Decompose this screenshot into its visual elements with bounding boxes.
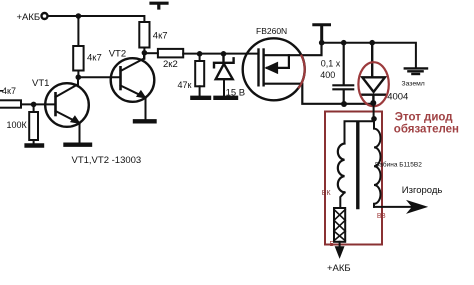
node base/100К junction	[31, 102, 37, 108]
svg-text:ВК: ВК	[322, 190, 332, 197]
resistor R6 47к	[195, 61, 204, 86]
svg-text:FB260N: FB260N	[256, 26, 287, 36]
svg-text:+АКБ: +АКБ	[327, 263, 351, 274]
svg-text:VT2: VT2	[109, 49, 126, 60]
wire 2к2 to gate	[183, 53, 257, 55]
resistor R4 100К	[29, 112, 38, 140]
terminal T top-left	[151, 3, 167, 8]
resistor R3 4к7 (left edge)	[0, 100, 21, 107]
wire 47к bottom lead	[199, 86, 201, 95]
arrow Изгородь	[408, 201, 427, 213]
svg-text:VT1: VT1	[32, 78, 49, 89]
wire primary bottom lead	[340, 192, 344, 208]
svg-text:обязателен: обязателен	[394, 124, 459, 136]
red box around coil	[325, 112, 382, 245]
svg-text:100К: 100К	[7, 120, 28, 130]
node coil top junction	[371, 116, 377, 122]
transistor VT2	[111, 52, 155, 118]
node VT1 collector junction	[76, 74, 82, 80]
wire R3 to VT1 base	[21, 103, 55, 105]
ground under zener	[216, 96, 237, 100]
svg-text:Заземл: Заземл	[402, 81, 425, 88]
svg-text:4к7: 4к7	[87, 53, 102, 64]
ground under 47к	[192, 96, 209, 100]
svg-text:400: 400	[320, 70, 335, 80]
transformer secondary coil	[374, 119, 381, 207]
node R2/VT2/2к2 junction	[142, 50, 148, 56]
wire diode node down to coil node	[373, 103, 375, 119]
wire node to 2к2	[144, 52, 158, 54]
transformer core	[356, 123, 359, 208]
wire R1 top lead	[77, 16, 79, 46]
svg-text:4004: 4004	[387, 91, 408, 102]
node cap bottom junction	[341, 101, 347, 107]
ground under 100К	[27, 143, 42, 147]
node 47к junction	[197, 51, 203, 57]
wire 100К top lead	[33, 104, 35, 112]
wire top rail	[48, 16, 145, 22]
wire 100К bottom lead	[33, 140, 35, 144]
resistor R2 4к7	[139, 22, 149, 48]
svg-text:2к2: 2к2	[163, 59, 178, 70]
wire R1 bottom lead	[77, 71, 79, 78]
svg-text:VT1,VT2 -13003: VT1,VT2 -13003	[72, 155, 142, 166]
wire secondary to fence arrow	[374, 206, 412, 208]
svg-text:0,1 х: 0,1 х	[321, 59, 341, 69]
wire 47к top lead	[199, 54, 201, 61]
svg-text:4к7: 4к7	[2, 86, 16, 96]
node diode top junction	[369, 40, 375, 46]
node diode bottom junction	[370, 100, 376, 106]
svg-text:Б: Б	[330, 241, 335, 248]
red ellipse highlight around VD2	[358, 62, 388, 106]
svg-text:Этот диод: Этот диод	[395, 111, 453, 123]
terminal T right	[314, 25, 330, 43]
svg-text:ВЗ: ВЗ	[377, 213, 386, 220]
ground under VT1	[66, 142, 91, 146]
node drain junction	[319, 40, 325, 46]
mosfet Q1 FB260N	[243, 38, 374, 104]
wire VT1 collector to VT2 base	[78, 76, 119, 78]
node rail/R1 junction	[76, 13, 82, 19]
resistor R1 4к7	[73, 46, 83, 71]
transistor VT1	[45, 77, 89, 142]
arrow down to +АКБ	[339, 242, 341, 248]
svg-text:Бабина Б115В2: Бабина Б115В2	[375, 161, 422, 169]
wire top-right rail	[322, 43, 416, 68]
earth ground Заземл	[405, 68, 427, 74]
resistor R5 2к2	[158, 49, 183, 58]
capacitor C1	[333, 43, 353, 104]
zener VD1 15 В	[214, 54, 234, 96]
svg-text:Изгородь: Изгородь	[402, 185, 443, 196]
diode VD2 4004	[362, 43, 385, 103]
svg-text:4к7: 4к7	[153, 31, 168, 42]
svg-text:+АКБ: +АКБ	[17, 12, 41, 23]
svg-text:47к: 47к	[178, 80, 192, 90]
node zener junction	[221, 51, 227, 57]
transformer primary coil	[338, 144, 345, 193]
wire R2 bottom lead	[143, 48, 145, 59]
node cap top junction	[341, 40, 347, 46]
red highlight arc on Q1	[299, 56, 305, 88]
wire coil top to primary	[345, 121, 375, 143]
ballast element (hatched box)	[334, 208, 345, 242]
ground under VT2	[135, 119, 155, 123]
terminal +АКБ	[42, 13, 48, 19]
